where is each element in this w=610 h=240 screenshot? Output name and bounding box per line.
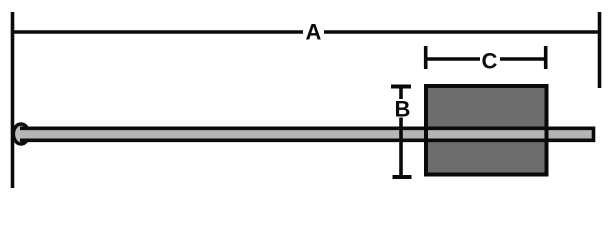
dimension B top tick bbox=[391, 85, 411, 89]
handle end ball bbox=[13, 124, 28, 144]
dimension line B (upper segment) bbox=[399, 87, 403, 100]
brush head block fill bbox=[426, 86, 547, 175]
svg-text:C: C bbox=[482, 49, 498, 74]
dimension B bottom tick bbox=[393, 175, 412, 179]
left extension line bbox=[11, 12, 15, 188]
right extension line bbox=[598, 12, 602, 88]
svg-text:B: B bbox=[395, 97, 411, 122]
rod/handle shaft bbox=[20, 128, 594, 140]
dimension line A (left segment) bbox=[11, 30, 303, 34]
dimension C right tick bbox=[544, 46, 548, 69]
brush head block outline bbox=[426, 86, 547, 175]
dimension line C (right segment) bbox=[500, 57, 546, 61]
dimension C left tick bbox=[424, 46, 428, 69]
dimension line B (lower segment) bbox=[399, 118, 403, 178]
dimension line C (left segment) bbox=[426, 57, 480, 61]
dimension line A (right segment) bbox=[324, 30, 601, 34]
svg-text:A: A bbox=[306, 20, 322, 45]
